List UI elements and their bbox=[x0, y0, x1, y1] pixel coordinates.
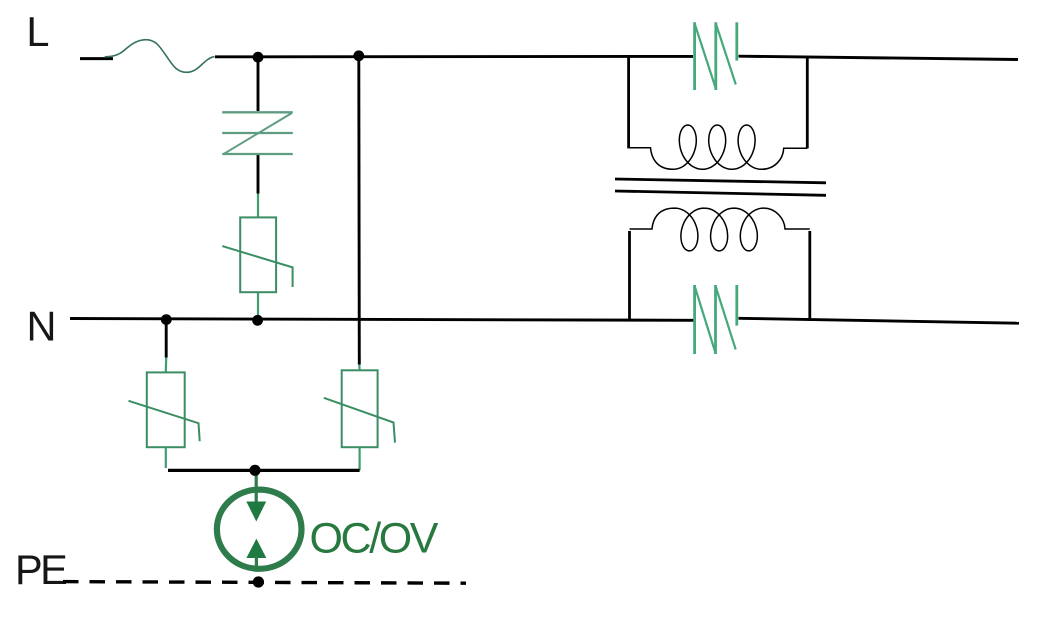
svg-text:L: L bbox=[26, 8, 49, 55]
svg-text:N: N bbox=[27, 303, 57, 350]
svg-text:PE: PE bbox=[15, 546, 66, 593]
svg-text:OC/OV: OC/OV bbox=[310, 515, 439, 563]
